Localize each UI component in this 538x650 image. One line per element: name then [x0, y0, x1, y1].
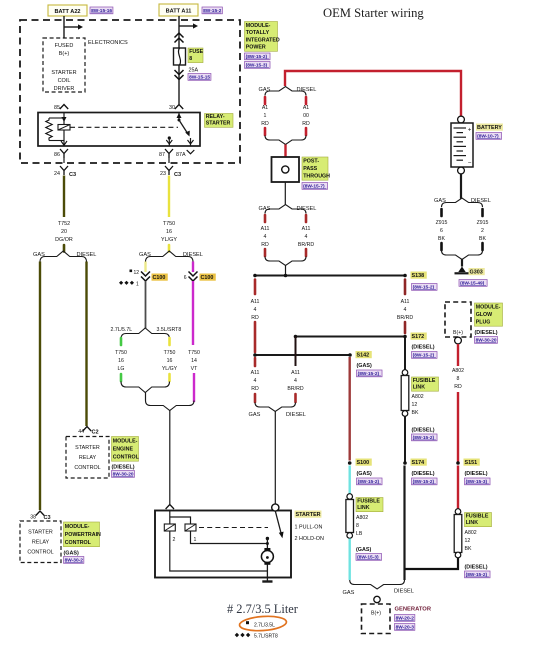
svg-text:C100: C100 — [201, 275, 214, 281]
splice S174 dot — [403, 461, 407, 465]
wire T750 YL/GY upper — [168, 176, 170, 218]
wire BATT A22 to fused B+ — [63, 16, 65, 38]
wire LG dash lower — [120, 374, 123, 381]
svg-text:(GAS): (GAS) — [357, 471, 372, 477]
wire Z915 gas dash1 — [440, 209, 443, 216]
svg-text:24: 24 — [54, 171, 60, 177]
svg-text:RELAY-: RELAY- — [206, 114, 225, 120]
svg-text:LB: LB — [356, 531, 363, 537]
svg-text:8W-20-3: 8W-20-3 — [396, 625, 415, 631]
svg-text:16: 16 — [166, 229, 172, 235]
reference S142 (8W-15-2) — [357, 370, 383, 377]
svg-text:VT: VT — [191, 366, 198, 372]
wire A11 gas dash u1 — [264, 215, 267, 222]
splice S100 dot — [348, 461, 352, 465]
wire S142 to S100 — [349, 357, 351, 461]
svg-text:FUSIBLE: FUSIBLE — [357, 498, 380, 504]
battery terminal top — [458, 116, 465, 123]
svg-text:16: 16 — [167, 358, 173, 364]
svg-text:C3: C3 — [69, 172, 76, 178]
svg-text:BK: BK — [438, 236, 445, 242]
svg-text:(DIESEL): (DIESEL) — [112, 465, 135, 471]
svg-text:(8W-15-2): (8W-15-2) — [413, 353, 435, 359]
wire merged engines stub — [145, 393, 147, 401]
wire fuse to pin 30 — [178, 65, 180, 104]
wire A11 diesel cross — [295, 337, 297, 367]
svg-text:GAS: GAS — [259, 87, 271, 93]
svg-text:(GAS): (GAS) — [356, 547, 371, 553]
glow plug terminal — [455, 337, 462, 344]
reference generator 8W-20-2 — [395, 615, 415, 622]
svg-text:A11: A11 — [291, 370, 300, 376]
svg-text:8W-15-16: 8W-15-16 — [91, 8, 112, 14]
svg-text:S174: S174 — [412, 460, 425, 466]
starter solenoid switch terminal — [272, 504, 279, 511]
splice S172 dot — [403, 335, 407, 339]
svg-text:86: 86 — [54, 152, 60, 158]
relay dashed link line — [70, 126, 178, 128]
starter motor top tab — [264, 548, 270, 551]
svg-text:(8W-15-2): (8W-15-2) — [358, 371, 380, 377]
legend square 2.7L/3.5L — [246, 621, 249, 624]
svg-text:BATT A11: BATT A11 — [166, 9, 192, 15]
reference fl upper (8W-15-2) — [412, 434, 438, 441]
pin 87 Y connector — [165, 149, 173, 158]
svg-text:20: 20 — [61, 229, 67, 235]
svg-text:BR/RD: BR/RD — [397, 315, 413, 321]
wire post-pass-through down — [284, 182, 286, 205]
svg-text:BATTERY: BATTERY — [477, 125, 502, 131]
wire A1 diesel dash upper — [305, 97, 308, 104]
svg-text:RD: RD — [251, 386, 259, 392]
relay coil feed pin85 line — [63, 113, 65, 147]
svg-text:1: 1 — [194, 537, 197, 543]
reference 8W-15-16 — [90, 7, 113, 14]
svg-text:LINK: LINK — [413, 384, 426, 390]
svg-text:12: 12 — [412, 402, 418, 408]
svg-text:12: 12 — [465, 538, 471, 544]
reference 8W-30-20 ECM — [112, 471, 135, 478]
label G303 — [469, 268, 485, 275]
svg-text:12: 12 — [134, 270, 140, 276]
svg-text:STARTER: STARTER — [296, 512, 321, 518]
wire diesel VT magenta — [192, 281, 194, 345]
svg-text:2: 2 — [481, 228, 484, 234]
connector C100 diesel chevrons — [189, 272, 198, 277]
svg-text:4: 4 — [294, 378, 297, 384]
label FUSIBLE LINK gas — [356, 498, 383, 512]
fusible link gas — [347, 494, 353, 500]
svg-text:MODULE-: MODULE- — [246, 23, 271, 29]
svg-text:2: 2 — [173, 537, 176, 543]
svg-text:4: 4 — [264, 234, 267, 240]
label S172 — [411, 333, 427, 340]
wire to ground G303 — [461, 260, 463, 263]
pin 86 Y connector — [60, 149, 68, 158]
svg-text:POWERTRAIN: POWERTRAIN — [65, 532, 101, 538]
starter coil1 to motor — [191, 531, 268, 544]
svg-text:BK: BK — [465, 546, 472, 552]
relay coil box — [58, 125, 70, 131]
svg-text:ENGINE: ENGINE — [113, 447, 134, 453]
connector BATT A22 box — [48, 5, 87, 16]
wire S172 to fusible link — [404, 338, 406, 370]
svg-text:RD: RD — [454, 384, 462, 390]
wire A1 gas dash upper — [264, 97, 267, 104]
connector 24 C3 Y symbol — [60, 166, 68, 175]
brace merge with VT — [146, 401, 195, 411]
starter coil wire in — [169, 511, 171, 525]
svg-text:1: 1 — [264, 113, 267, 119]
wire A11 merged stub — [285, 266, 287, 276]
svg-text:S138: S138 — [412, 273, 425, 279]
svg-text:CONTROL: CONTROL — [65, 540, 92, 546]
svg-text:(8W-15-3): (8W-15-3) — [246, 63, 268, 69]
splice S138 dot — [403, 274, 407, 278]
brace split A1 gas/diesel — [265, 87, 306, 96]
brace merge ground — [442, 251, 483, 260]
svg-text:C3: C3 — [44, 515, 51, 521]
svg-text:14: 14 — [191, 358, 197, 364]
svg-text:(8W-15-2): (8W-15-2) — [358, 479, 380, 485]
svg-text:STARTER: STARTER — [51, 70, 76, 76]
wire VT magenta lower — [193, 373, 195, 402]
brace split engines — [121, 328, 170, 339]
svg-text:5.7L/SRT8: 5.7L/SRT8 — [254, 634, 278, 640]
svg-text:FUSIBLE: FUSIBLE — [466, 513, 489, 519]
brace split T752 gas/diesel — [40, 251, 87, 262]
svg-text:2.7L/5.7L: 2.7L/5.7L — [111, 327, 133, 333]
svg-text:16: 16 — [118, 358, 124, 364]
svg-text:GENERATOR: GENERATOR — [395, 607, 432, 613]
relay pin30 stub — [178, 113, 180, 121]
label MODULE-ENGINE CONTROL — [112, 437, 139, 462]
wire A1 merged red — [284, 145, 286, 158]
module glow plug dashed box — [445, 302, 471, 337]
label C100 gas — [152, 274, 168, 281]
wire A11 gas dash u2 — [264, 249, 267, 256]
label FUSIBLE LINK diesel upper — [412, 377, 439, 391]
svg-text:S151: S151 — [465, 460, 478, 466]
reference 8W-15-15 — [188, 74, 211, 81]
junction dot S172-left — [294, 335, 298, 339]
brace split A11 gas/diesel — [265, 205, 306, 214]
svg-text:4: 4 — [254, 307, 257, 313]
svg-text:FUSED: FUSED — [55, 43, 74, 49]
svg-text:A1: A1 — [303, 105, 309, 111]
reference (8W-15-3) TIPM — [245, 62, 271, 69]
starter dashed link — [199, 527, 268, 529]
svg-text:6: 6 — [440, 228, 443, 234]
wire Z915 gas dash2 — [440, 243, 443, 250]
svg-text:B(+): B(+) — [59, 51, 70, 57]
svg-text:POST-: POST- — [303, 159, 319, 165]
svg-text:2.7L/3.5L: 2.7L/3.5L — [254, 623, 275, 629]
svg-text:8: 8 — [356, 523, 359, 529]
svg-text:(8W-15-2): (8W-15-2) — [413, 435, 435, 441]
svg-text:30: 30 — [169, 105, 175, 111]
wire A11 diesel dash u1 — [305, 215, 308, 222]
svg-text:A1: A1 — [262, 105, 268, 111]
relay resistor bottom connect — [49, 140, 64, 142]
svg-text:YL/GY: YL/GY — [161, 237, 177, 243]
svg-text:87A: 87A — [176, 152, 186, 158]
starter ground symbol — [262, 580, 272, 582]
svg-text:(8W-15-7): (8W-15-7) — [303, 184, 325, 190]
inline connector chevrons above fuse — [175, 33, 184, 38]
connector 23 C3 Y symbol — [165, 166, 173, 175]
label POST-PASS THROUGH — [302, 157, 328, 180]
inner dashed box FUSED B+ STARTER COIL DRIVER — [43, 38, 85, 92]
relay coil resistor — [46, 118, 52, 141]
starter box — [155, 511, 291, 578]
svg-text:MODULE-: MODULE- — [65, 524, 90, 530]
connector C3 chevron PCM — [36, 511, 44, 516]
relay contact 87A stub — [190, 138, 192, 146]
post pass through box — [272, 157, 300, 182]
relay switch blade — [179, 120, 188, 134]
label FUSIBLE LINK diesel lower — [465, 513, 492, 527]
svg-text:POWER: POWER — [246, 45, 266, 51]
svg-text:4: 4 — [404, 307, 407, 313]
ECM dashed box — [66, 437, 109, 479]
branch arrow from A11 wire — [179, 25, 193, 27]
junction dot center — [284, 274, 288, 278]
svg-text:STARTER: STARTER — [75, 445, 100, 451]
svg-text:87: 87 — [159, 152, 165, 158]
svg-text:RD: RD — [261, 242, 269, 248]
fuse F8 symbol — [174, 48, 186, 65]
svg-text:(8W-10-7): (8W-10-7) — [477, 134, 499, 140]
wire gas below C100 gray — [145, 281, 147, 328]
reference glow plug 8W-30-20 — [475, 337, 498, 344]
label S151 — [464, 459, 480, 466]
reference S138 (8W-15-2) — [412, 284, 438, 291]
starter switch blade — [275, 511, 281, 534]
svg-text:T750: T750 — [163, 221, 175, 227]
label STARTER — [295, 511, 322, 518]
reference 8W-30-2 PCM — [64, 557, 84, 564]
wire T752 DG/OR upper — [63, 176, 65, 218]
splice S142 dot — [348, 353, 352, 357]
svg-text:DG/OR: DG/OR — [55, 237, 73, 243]
svg-text:LINK: LINK — [357, 505, 370, 511]
svg-text:TOTALLY: TOTALLY — [246, 30, 270, 36]
reference fl gas (8W-15-3) — [356, 554, 382, 561]
svg-text:3.5L/SRT8: 3.5L/SRT8 — [157, 327, 182, 333]
fusible link diesel lower — [455, 509, 461, 515]
svg-text:8W-30-20: 8W-30-20 — [113, 472, 134, 478]
svg-text:C2: C2 — [92, 430, 99, 436]
svg-text:(DIESEL): (DIESEL) — [412, 345, 435, 351]
splice S151 dot — [456, 461, 460, 465]
wire YL dash lower — [168, 374, 171, 381]
label MODULE-POWERTRAIN CONTROL — [64, 522, 100, 547]
svg-text:A802: A802 — [356, 515, 368, 521]
svg-text:BK: BK — [412, 410, 419, 416]
svg-text:4: 4 — [305, 234, 308, 240]
brace merge generator — [350, 580, 405, 589]
wire Z915 diesel dash1 — [481, 209, 484, 216]
svg-text:(DIESEL): (DIESEL) — [465, 565, 488, 571]
svg-text:6: 6 — [184, 275, 187, 281]
svg-text:A802: A802 — [465, 530, 477, 536]
junction dot left — [253, 274, 257, 278]
svg-text:(DIESEL): (DIESEL) — [465, 471, 488, 477]
svg-text:8W-20-2: 8W-20-2 — [396, 616, 415, 622]
legend diamonds 5.7L/SRT8 — [235, 633, 251, 637]
wire diesel branch DG to ECM — [85, 262, 87, 427]
svg-text:85: 85 — [54, 105, 60, 111]
svg-text:A11: A11 — [302, 226, 311, 232]
wire A11 gas low dash1 — [254, 358, 257, 366]
wire fusible to S174 — [404, 417, 406, 464]
svg-text:PLUG: PLUG — [476, 319, 491, 325]
svg-text:T752: T752 — [58, 221, 70, 227]
wire T750 stub below label — [168, 245, 171, 252]
svg-text:OEM Starter wiring: OEM Starter wiring — [323, 6, 424, 20]
reference generator 8W-20-3 — [395, 624, 415, 631]
starter pull-in coil box — [164, 524, 175, 531]
svg-text:RD: RD — [302, 121, 310, 127]
connector C100 gas chevrons — [141, 272, 150, 277]
svg-text:DIESEL: DIESEL — [394, 589, 414, 595]
svg-text:8W-30-20: 8W-30-20 — [476, 338, 497, 344]
svg-text:RD: RD — [261, 121, 269, 127]
wire S151 to fusible link diesel2 — [457, 466, 459, 510]
generator dashed box — [362, 604, 391, 634]
svg-text:1 PULL-ON: 1 PULL-ON — [295, 525, 323, 531]
module TIPM dashed boundary — [20, 20, 240, 163]
svg-text:(8W-15-3): (8W-15-3) — [357, 555, 379, 561]
reference (8W-15-2) TIPM — [245, 53, 271, 60]
label S142 — [356, 351, 372, 358]
text cavity 12 — [130, 270, 133, 273]
svg-text:DRIVER: DRIVER — [54, 86, 75, 92]
wire LG dash upper — [120, 338, 123, 345]
wire A802 RD lower — [457, 392, 459, 463]
svg-text:C100: C100 — [153, 275, 166, 281]
svg-text:GAS: GAS — [343, 590, 355, 596]
wire A11 diesel dash u2 — [305, 249, 308, 256]
wire S174 to generator merge — [403, 466, 405, 581]
svg-text:2 HOLD-ON: 2 HOLD-ON — [295, 536, 324, 542]
label S100 — [356, 459, 372, 466]
svg-text:(GAS): (GAS) — [64, 551, 79, 557]
svg-text:LG: LG — [118, 366, 125, 372]
svg-text:CONTROL: CONTROL — [74, 465, 100, 471]
reference (8W-15-7) — [302, 183, 328, 190]
reference 8W-15-2 — [202, 7, 222, 14]
svg-text:COIL: COIL — [58, 78, 71, 84]
svg-text:00: 00 — [303, 113, 309, 119]
wire battery feed red — [285, 71, 461, 116]
svg-text:T750: T750 — [164, 350, 176, 356]
svg-text:C3: C3 — [174, 172, 181, 178]
svg-text:25A: 25A — [189, 68, 199, 74]
starter coil2 return — [170, 531, 268, 571]
svg-text:(8W-15-2): (8W-15-2) — [413, 285, 435, 291]
svg-text:(8W-15-2): (8W-15-2) — [466, 572, 488, 578]
wire A802 RD upper — [457, 344, 459, 366]
svg-text:MODULE-: MODULE- — [113, 439, 138, 445]
wire A11 BRRD dash d1 — [404, 280, 407, 295]
reference BATTERY (8W-10-7) — [476, 133, 502, 140]
svg-text:CONTROL: CONTROL — [27, 550, 53, 556]
label RELAY-STARTER — [205, 114, 234, 128]
wire gas C100 yellow stub — [144, 262, 146, 273]
svg-text:BK: BK — [479, 236, 486, 242]
wire A1 diesel dash lower — [305, 128, 308, 135]
brace merge LG YL — [121, 382, 170, 393]
svg-text:RELAY: RELAY — [32, 540, 50, 546]
wire battery negative — [460, 174, 462, 199]
svg-text:(DIESEL): (DIESEL) — [412, 471, 435, 477]
svg-text:Z915: Z915 — [477, 220, 489, 226]
svg-text:8W-15-15: 8W-15-15 — [189, 75, 210, 81]
generator terminal — [374, 596, 380, 602]
wire S100 cyan upper — [349, 466, 351, 495]
bus wire S138 line — [255, 275, 405, 277]
bus wire S142 line — [255, 354, 350, 356]
battery terminal bottom — [458, 167, 465, 174]
wire A11 gas mid dash2 — [254, 322, 257, 352]
pin 85 chevron — [60, 105, 68, 110]
bus wire S172 line — [296, 336, 406, 338]
svg-text:23: 23 — [160, 171, 166, 177]
label BATTERY — [476, 124, 503, 131]
svg-text:ELECTRONICS: ELECTRONICS — [88, 40, 128, 46]
junction dot S142-left — [253, 353, 257, 357]
svg-text:YL/GY: YL/GY — [162, 366, 178, 372]
brace merge A1 — [265, 136, 306, 145]
connector C2 chevron — [83, 427, 91, 432]
reference S151 (8W-15-3) — [465, 478, 491, 485]
svg-text:RELAY: RELAY — [79, 455, 97, 461]
svg-text:PASS: PASS — [303, 166, 317, 172]
svg-text:(GAS): (GAS) — [357, 363, 372, 369]
starter coil branch — [170, 517, 191, 524]
label S174 — [411, 459, 427, 466]
svg-text:T750: T750 — [188, 350, 200, 356]
svg-text:1: 1 — [136, 281, 139, 287]
svg-text:S100: S100 — [357, 460, 370, 466]
svg-text:B(+): B(+) — [453, 330, 463, 336]
wire gas branch DG to PCM — [39, 262, 41, 511]
wire fusible diesel2 join — [405, 558, 459, 569]
wire fusible gas cyan lower — [349, 539, 351, 581]
reference G303 (8W-15-49) — [459, 280, 487, 287]
wire starter coil feed — [169, 411, 171, 505]
svg-text:+: + — [468, 127, 472, 134]
svg-text:STARTER: STARTER — [28, 530, 53, 536]
wire A11 gas low dash2 — [254, 394, 257, 402]
svg-text:(DIESEL): (DIESEL) — [412, 428, 435, 434]
wire A1 gas dash lower — [264, 128, 267, 135]
brace merge starter feed — [255, 403, 296, 412]
wire YL dash upper — [168, 338, 171, 345]
svg-text:BR/RD: BR/RD — [287, 386, 303, 392]
svg-text:GAS: GAS — [249, 412, 261, 418]
svg-text:CONTROL: CONTROL — [113, 454, 140, 460]
wire starter solenoid feed — [274, 412, 276, 505]
svg-text:8: 8 — [457, 376, 460, 382]
svg-text:8: 8 — [189, 56, 192, 62]
svg-text:8W-30-2: 8W-30-2 — [65, 558, 84, 564]
svg-text:FUSIBLE: FUSIBLE — [413, 378, 436, 384]
starter coil feed chevron — [166, 505, 174, 510]
PCM dashed box — [20, 521, 61, 563]
